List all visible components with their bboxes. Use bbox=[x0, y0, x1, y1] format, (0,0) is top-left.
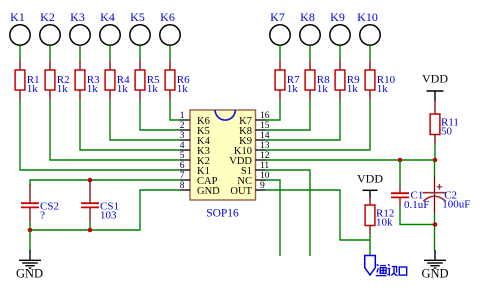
key K4 circle bbox=[100, 25, 120, 45]
pin 11 bbox=[256, 169, 266, 171]
resistor R3 lead bottom bbox=[79, 90, 81, 100]
resistor R10 bbox=[365, 70, 375, 90]
pin 14 bbox=[256, 139, 266, 141]
capacitor C1 lead bottom bbox=[399, 198, 401, 206]
wire R3 to pin 4 bbox=[80, 100, 180, 150]
svg-text:1k: 1k bbox=[287, 83, 299, 95]
wire K6 to R6 bbox=[169, 45, 171, 60]
node CS2 bottom junction bbox=[28, 228, 33, 233]
resistor R5 bbox=[135, 70, 145, 90]
port label 通讯口 (drawn glyphs) bbox=[376, 264, 407, 276]
wire R4 to pin 3 bbox=[110, 100, 180, 140]
svg-text:16: 16 bbox=[260, 111, 270, 121]
pin 6 bbox=[180, 169, 190, 171]
svg-text:10k: 10k bbox=[376, 217, 393, 229]
pin 8 bbox=[180, 189, 190, 191]
svg-text:15: 15 bbox=[260, 121, 270, 131]
svg-text:7: 7 bbox=[180, 171, 185, 181]
svg-text:K3: K3 bbox=[70, 10, 85, 24]
node C1 rail junction bbox=[398, 158, 403, 163]
svg-text:1: 1 bbox=[180, 111, 185, 121]
svg-text:6: 6 bbox=[180, 161, 185, 171]
capacitor C1 bbox=[391, 192, 409, 194]
key K9 circle bbox=[330, 25, 350, 45]
wire C1 bottom to C2 bbox=[400, 206, 435, 225]
pin 15 bbox=[256, 129, 266, 131]
capacitor CS2 lead bottom bbox=[29, 208, 31, 222]
key K5 circle bbox=[130, 25, 150, 45]
key K7 circle bbox=[270, 25, 290, 45]
resistor R8 bbox=[305, 70, 315, 90]
svg-text:1k: 1k bbox=[377, 83, 389, 95]
pin 16 bbox=[256, 119, 266, 121]
svg-text:K8: K8 bbox=[300, 10, 315, 24]
wire R6 to pin 1 bbox=[170, 100, 180, 120]
resistor R11 bbox=[430, 114, 440, 135]
pin 9 bbox=[256, 189, 266, 191]
wire R1 to pin 6 bbox=[20, 100, 180, 170]
svg-text:1k: 1k bbox=[147, 83, 159, 95]
resistor R5 lead bottom bbox=[139, 90, 141, 100]
op-amp U1 body (SOP16) bbox=[190, 110, 256, 200]
pin 7 bbox=[180, 179, 190, 181]
pin 12 bbox=[256, 159, 266, 161]
wire R9 to pin 14 bbox=[266, 100, 341, 140]
wire K3 to R3 bbox=[79, 45, 81, 60]
capacitor CS1 bbox=[81, 202, 99, 204]
wire R8 to pin 15 bbox=[266, 100, 311, 130]
pin 13 bbox=[256, 149, 266, 151]
svg-text:9: 9 bbox=[260, 181, 265, 191]
svg-text:0.1uF: 0.1uF bbox=[404, 199, 429, 211]
key K3 circle bbox=[70, 25, 90, 45]
resistor R2 bbox=[45, 70, 55, 90]
svg-text:1k: 1k bbox=[27, 83, 39, 95]
wire K8 to R8 bbox=[309, 45, 311, 60]
port 通讯口 bbox=[365, 256, 376, 276]
node C1/C2 bottom junction bbox=[433, 222, 438, 227]
key K8 circle bbox=[300, 25, 320, 45]
wire K1 to R1 bbox=[19, 45, 21, 60]
svg-text:GND: GND bbox=[421, 266, 448, 280]
wire R2 to pin 5 bbox=[50, 100, 180, 160]
resistor R1 bbox=[15, 70, 25, 90]
svg-text:100uF: 100uF bbox=[442, 199, 470, 211]
svg-text:13: 13 bbox=[260, 141, 270, 151]
wire K9 to R9 bbox=[339, 45, 341, 60]
resistor R12 lead bottom bbox=[369, 226, 371, 235]
svg-text:1k: 1k bbox=[347, 83, 359, 95]
wire R5 to pin 2 bbox=[140, 100, 180, 130]
resistor R11 lead bottom bbox=[434, 135, 436, 145]
capacitor C2 bbox=[423, 192, 446, 194]
svg-text:2: 2 bbox=[180, 121, 185, 131]
svg-text:K7: K7 bbox=[270, 10, 285, 24]
svg-text:SOP16: SOP16 bbox=[206, 208, 239, 220]
svg-text:GND: GND bbox=[16, 266, 43, 280]
node R11/C2 rail junction bbox=[433, 158, 438, 163]
svg-text:1k: 1k bbox=[57, 83, 69, 95]
resistor R1 lead bottom bbox=[19, 90, 21, 100]
svg-text:1k: 1k bbox=[177, 83, 189, 95]
wire K2 to R2 bbox=[49, 45, 51, 60]
resistor R6 lead bottom bbox=[169, 90, 171, 100]
svg-text:K4: K4 bbox=[100, 10, 115, 24]
wire R10 to pin 13 bbox=[266, 100, 371, 150]
svg-text:K2: K2 bbox=[40, 10, 55, 24]
resistor R8 lead top bbox=[309, 60, 311, 70]
resistor R4 bbox=[105, 70, 115, 90]
key K10 circle bbox=[360, 25, 380, 45]
resistor R7 lead bottom bbox=[279, 90, 281, 100]
wire pin10 NC bbox=[266, 180, 281, 256]
wire pin8 GND down to bottom rail bbox=[30, 190, 180, 230]
wire to ground left bbox=[29, 230, 31, 251]
svg-text:1k: 1k bbox=[317, 83, 329, 95]
svg-text:3: 3 bbox=[180, 131, 185, 141]
key K6 circle bbox=[160, 25, 180, 45]
ground right bbox=[434, 250, 436, 260]
svg-text:K10: K10 bbox=[357, 10, 378, 24]
wire K5 to R5 bbox=[139, 45, 141, 60]
resistor R10 lead bottom bbox=[369, 90, 371, 100]
resistor R3 bbox=[75, 70, 85, 90]
node CS1 top junction bbox=[88, 178, 93, 183]
resistor R9 bbox=[335, 70, 345, 90]
capacitor C2 plus sign bbox=[437, 186, 443, 188]
key K2 circle bbox=[40, 25, 60, 45]
resistor R5 lead top bbox=[139, 60, 141, 70]
svg-text:VDD: VDD bbox=[422, 72, 448, 86]
wire K10 to R10 bbox=[369, 45, 371, 60]
node CS1 bottom junction bbox=[88, 228, 93, 233]
svg-text:OUT: OUT bbox=[230, 186, 252, 197]
svg-text:K6: K6 bbox=[160, 10, 175, 24]
capacitor CS1 lead top bbox=[89, 180, 91, 203]
pin 4 bbox=[180, 149, 190, 151]
wire R12 to port bbox=[369, 234, 371, 256]
svg-text:1k: 1k bbox=[117, 83, 129, 95]
wire pin7 CAP to capacitors bbox=[30, 180, 180, 185]
resistor R8 lead bottom bbox=[309, 90, 311, 100]
capacitor CS2 bbox=[21, 202, 39, 204]
resistor R1 lead top bbox=[19, 60, 21, 70]
svg-text:4: 4 bbox=[180, 141, 185, 151]
resistor R9 lead bottom bbox=[339, 90, 341, 100]
wire K7 to R7 bbox=[279, 45, 281, 60]
key K1 circle bbox=[10, 25, 30, 45]
resistor R4 lead bottom bbox=[109, 90, 111, 100]
wire pin9 OUT to port bbox=[266, 190, 371, 240]
wire K4 to R4 bbox=[109, 45, 111, 60]
svg-text:GND: GND bbox=[197, 186, 220, 197]
svg-text:14: 14 bbox=[260, 131, 270, 141]
resistor R6 lead top bbox=[169, 60, 171, 70]
resistor R12 bbox=[365, 205, 375, 226]
svg-text:8: 8 bbox=[180, 181, 185, 191]
svg-text:50: 50 bbox=[441, 126, 453, 138]
svg-text:K5: K5 bbox=[130, 10, 145, 24]
capacitor C1 lead top bbox=[399, 160, 401, 186]
pin 10 bbox=[256, 179, 266, 181]
svg-text:?: ? bbox=[40, 210, 45, 222]
capacitor C2 lead bottom bbox=[434, 194, 436, 214]
resistor R9 lead top bbox=[339, 60, 341, 70]
resistor R7 lead top bbox=[279, 60, 281, 70]
capacitor C2 lead top bbox=[434, 160, 436, 177]
resistor R4 lead top bbox=[109, 60, 111, 70]
resistor R2 lead top bbox=[49, 60, 51, 70]
resistor R2 lead bottom bbox=[49, 90, 51, 100]
pin 5 bbox=[180, 159, 190, 161]
chip notch arc bbox=[215, 110, 235, 120]
pin 1 bbox=[180, 119, 190, 121]
svg-text:K9: K9 bbox=[330, 10, 345, 24]
resistor R12 lead top bbox=[369, 198, 371, 205]
pin 2 bbox=[180, 129, 190, 131]
capacitor CS1 lead bottom bbox=[89, 208, 91, 222]
resistor R7 bbox=[275, 70, 285, 90]
resistor R6 bbox=[165, 70, 175, 90]
svg-text:K1: K1 bbox=[10, 10, 25, 24]
ground left bbox=[29, 250, 31, 260]
svg-text:103: 103 bbox=[100, 210, 117, 222]
wire R7 to pin 16 bbox=[266, 100, 281, 120]
resistor R10 lead top bbox=[369, 60, 371, 70]
capacitor CS2 lead top bbox=[29, 184, 31, 203]
pin 3 bbox=[180, 139, 190, 141]
wire pin11 S1 bbox=[266, 170, 311, 256]
resistor R11 lead top bbox=[434, 101, 436, 114]
svg-text:1k: 1k bbox=[87, 83, 99, 95]
svg-text:VDD: VDD bbox=[357, 172, 383, 186]
wire VDD rail pin12 bbox=[266, 159, 436, 161]
svg-text:5: 5 bbox=[180, 151, 185, 161]
resistor R3 lead top bbox=[79, 60, 81, 70]
